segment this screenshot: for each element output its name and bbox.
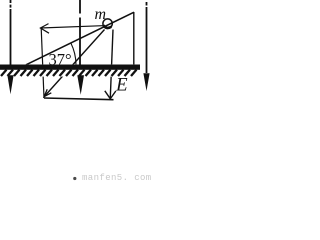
wire: rectangle bottom edge [44,98,114,100]
ceiling bar [0,65,140,70]
white mask under hatched band [0,64,143,76]
watermark dot [73,177,76,180]
wire: rectangle left edge [41,28,44,98]
vector E arrow: right edge with open head [110,30,113,98]
ceiling hatch ticks [1,70,137,76]
wire: incline hypotenuse (37° line) [26,12,134,65]
field line 1 (left), dashed top [10,0,12,9]
field line 3 (right), dashed top [146,2,148,6]
wire: incline vertical pole [133,12,135,65]
ball m shading [103,25,111,28]
angle arc 37° [71,43,76,65]
field arrowhead 3 [143,73,149,91]
svg-text:E: E [115,75,128,96]
svg-text:manfen5. com: manfen5. com [82,173,152,183]
svg-text:m: m [95,6,107,23]
field arrowhead 2 [77,75,84,94]
vector v: top edge with left arrowhead [40,26,102,28]
field arrowhead 1 [7,75,13,94]
field line 2 (center) with small gap [79,0,81,14]
ball m [103,19,112,28]
vector: steep diagonal with arrowhead at lower-left [44,30,104,97]
